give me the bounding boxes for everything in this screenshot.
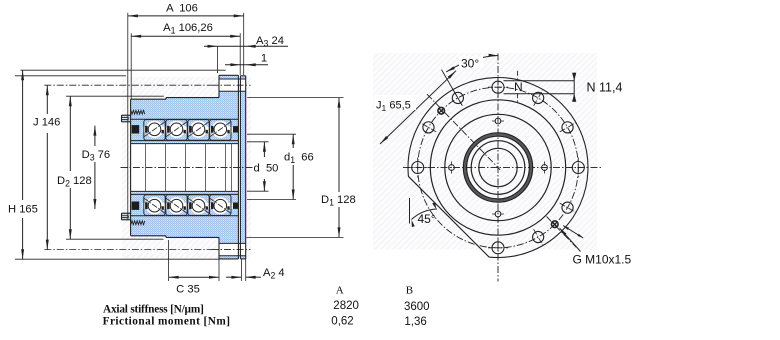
dimension 1 (flange standout): [225, 53, 268, 67]
svg-text:C 35: C 35: [176, 284, 200, 296]
bolt circle (dash-dot): [418, 87, 579, 248]
table row label frictional moment: [103, 316, 231, 328]
svg-text:30°: 30°: [461, 57, 479, 71]
dimension D3 76: [81, 126, 112, 209]
locknut spanner tab upper (section): [122, 115, 132, 122]
dimension H 165: [8, 70, 226, 259]
30-degree reference radial line: [442, 70, 463, 106]
inner ring joint lines: [146, 144, 232, 192]
flange bolt hole band top (white): [219, 79, 246, 91]
table value frictional moment B: [404, 316, 426, 328]
svg-text:D2 128: D2 128: [57, 175, 92, 189]
table value frictional moment A: [331, 316, 353, 328]
table column header B: [406, 284, 413, 296]
flange centerline horizontal: [403, 167, 602, 169]
dimension d 50: [247, 142, 278, 191]
svg-text:A3 24: A3 24: [256, 35, 284, 49]
bottom bolt hole centerline: [212, 249, 251, 251]
svg-text:A 106: A 106: [166, 3, 198, 15]
svg-text:0,62: 0,62: [331, 316, 353, 328]
svg-text:D1 128: D1 128: [321, 194, 356, 208]
svg-text:Axial stiffness [N/µm]: Axial stiffness [N/µm]: [103, 304, 204, 316]
bearing housing cross-section body (blue): [131, 98, 239, 238]
table row label axial stiffness: [103, 304, 204, 316]
dimension N 11,4: [504, 73, 623, 102]
shaft shoulder circle: [471, 141, 525, 195]
ball/cage band upper (blue bg): [131, 119, 239, 140]
locknut slot upper (white): [122, 118, 129, 120]
svg-text:1,36: 1,36: [404, 316, 426, 328]
locknut slot lower (white): [122, 216, 129, 218]
flange 45-degree diagonal centerline SE segment: [547, 217, 577, 248]
hatched backdrop of section view image block: [122, 77, 251, 259]
svg-text:N 11,4: N 11,4: [587, 81, 623, 95]
dimension C 35: [169, 240, 219, 296]
svg-text:A1 106,26: A1 106,26: [163, 22, 213, 36]
flange outline circle with 45-degree chamfer: [408, 77, 588, 257]
bore circle: [479, 148, 517, 186]
six G threaded holes on bolt circle: [421, 90, 576, 245]
svg-text:A: A: [336, 284, 344, 296]
svg-text:2820: 2820: [333, 300, 359, 312]
dimension J1 65,5: [374, 71, 456, 144]
flange bolt hole band bottom (white): [219, 243, 246, 255]
table value axial stiffness A: [333, 300, 359, 312]
locknut spanner tab lower (section): [122, 213, 132, 220]
svg-text:1: 1: [261, 53, 267, 65]
four locating holes on housing face: [449, 118, 548, 217]
flange plate (section): [240, 76, 245, 259]
svg-text:J 146: J 146: [33, 117, 60, 129]
dimension J 146: [33, 85, 212, 249]
svg-text:3600: 3600: [404, 301, 430, 313]
dimension d1 66: [247, 134, 319, 199]
flange boss top tab (section): [219, 75, 238, 97]
body outline: [131, 75, 246, 259]
locknut knurl lower: [131, 221, 145, 225]
svg-text:A2 4: A2 4: [263, 267, 285, 281]
table value axial stiffness B: [404, 301, 430, 313]
bolt hole edges in tabs: [219, 79, 246, 256]
svg-text:B: B: [406, 284, 413, 296]
locknut knurl upper: [131, 110, 145, 114]
bearing ring rim circles: [463, 133, 532, 202]
housing face circle: [445, 114, 551, 220]
four N bolt holes on flange: [408, 77, 589, 258]
dimension A1 106,26: [131, 20, 240, 99]
section axis centerline: [121, 167, 253, 169]
svg-text:D3 76: D3 76: [82, 149, 111, 163]
gap between boss and plate (white): [239, 75, 240, 259]
upper ball row with seals and separators: [131, 119, 239, 140]
svg-text:G M10x1.5: G M10x1.5: [573, 252, 632, 266]
svg-text:H 165: H 165: [8, 204, 38, 216]
hatched backdrop of front view image block: [373, 53, 597, 250]
dimension A3 24: [204, 35, 288, 73]
svg-text:45°: 45°: [418, 212, 436, 226]
dimension 45 degrees: [410, 198, 438, 227]
flange centerline vertical: [497, 53, 499, 281]
bore edges: [131, 144, 239, 192]
ball/cage band lower (blue bg): [131, 194, 239, 215]
svg-text:N: N: [514, 80, 523, 94]
svg-text:d1 66: d1 66: [284, 151, 314, 165]
top bolt hole centerline: [212, 84, 251, 86]
table column header A: [336, 284, 344, 296]
dimension A 106: [128, 1, 244, 220]
dimension D2 128: [56, 96, 164, 239]
locknut tab outlines: [122, 115, 132, 220]
label G M10x1.5 with leader: [559, 226, 632, 267]
dimension A2 4: [226, 259, 285, 281]
svg-text:J1 65,5: J1 65,5: [376, 99, 411, 113]
svg-text:d 50: d 50: [254, 163, 279, 175]
svg-text:Frictional moment [Nm]: Frictional moment [Nm]: [103, 316, 231, 328]
flange 45-degree diagonal centerline NW segment: [427, 94, 500, 170]
bearing outer ring circle: [465, 135, 531, 201]
label N with leader ticks: [514, 71, 523, 102]
dimension 30 degrees: [446, 54, 497, 72]
grease plug marks on diagonal: [438, 107, 558, 227]
lower ball row with seals and separators: [131, 194, 239, 215]
flange boss bottom tab (section): [219, 237, 238, 259]
shaft bore band (white): [131, 144, 239, 192]
housing spigot circle: [430, 100, 565, 235]
dimension D1 128: [247, 98, 356, 238]
